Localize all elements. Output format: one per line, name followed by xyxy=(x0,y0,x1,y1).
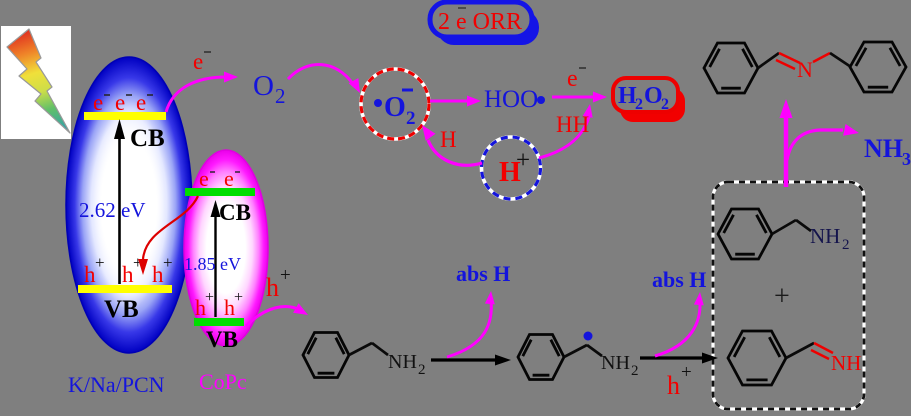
label h+ (oxidation) xyxy=(667,362,692,400)
svg-text:HH: HH xyxy=(556,112,589,137)
svg-text:1.85 eV: 1.85 eV xyxy=(184,254,241,274)
arrow O2 to superoxide xyxy=(288,65,360,93)
bond ring-CH (imine) xyxy=(786,343,814,358)
electrons on PCN CB xyxy=(93,90,153,115)
2e ORR box xyxy=(430,2,532,37)
svg-text:abs H: abs H xyxy=(652,267,706,292)
dashed intermediates box xyxy=(713,182,864,409)
K/Na/PCN photocatalyst ellipse xyxy=(66,57,192,353)
svg-text:3: 3 xyxy=(902,149,911,169)
arrow H+ to H2O2 path xyxy=(539,104,593,158)
svg-text:e: e xyxy=(93,90,103,115)
proton dashed circle xyxy=(482,137,541,199)
benzylamine ring (reactant) xyxy=(303,333,349,378)
svg-text:+: + xyxy=(774,281,790,312)
svg-text:NH: NH xyxy=(864,134,903,163)
svg-text:VB: VB xyxy=(104,296,139,323)
svg-text:2: 2 xyxy=(661,96,669,113)
svg-text:NH: NH xyxy=(831,351,861,375)
svg-text:+: + xyxy=(205,289,214,306)
boxed benzylamine CH2 bonds xyxy=(772,220,811,234)
label NH3 xyxy=(864,134,911,169)
svg-text:O: O xyxy=(644,83,663,109)
h+ transfer from CoPc VB xyxy=(246,303,308,326)
boxed imine ring xyxy=(728,331,786,385)
bond ring-CH xyxy=(758,53,779,68)
CoPc VB band (green) xyxy=(194,318,244,326)
arrow intermediates to product xyxy=(780,99,793,187)
svg-text:CB: CB xyxy=(219,200,251,225)
electron transfer arrow PCN CB to O2 xyxy=(166,72,238,113)
svg-text:NH: NH xyxy=(388,351,417,373)
svg-text:2: 2 xyxy=(275,84,286,108)
benzylamine CH2 bonds xyxy=(349,343,388,355)
arrow NH3 release xyxy=(787,124,859,160)
arrow superoxide to HOO xyxy=(430,96,481,107)
C=N double bond to NH (red) xyxy=(811,343,833,359)
holes on PCN VB xyxy=(84,253,173,287)
label NH2 (radical) xyxy=(601,352,639,379)
2e ORR box shadow xyxy=(437,10,539,45)
CoPc CB band (green) xyxy=(185,188,255,196)
svg-text:K/Na/PCN: K/Na/PCN xyxy=(68,372,165,397)
svg-text:e: e xyxy=(199,166,209,191)
svg-text:+: + xyxy=(163,253,173,272)
svg-text:+: + xyxy=(95,253,105,272)
svg-text:NH: NH xyxy=(601,352,630,374)
svg-text:2: 2 xyxy=(418,362,426,378)
svg-text:+: + xyxy=(234,289,243,306)
svg-text:CB: CB xyxy=(130,125,165,152)
reaction arrow 2 xyxy=(640,353,718,364)
electrons on CoPc CB xyxy=(199,166,240,191)
svg-text:e: e xyxy=(567,66,578,92)
H2O2 product box shadow xyxy=(620,88,685,122)
label NH2 (reactant) xyxy=(388,351,426,378)
arrow HOO to H2O2 xyxy=(552,92,607,103)
svg-text:2: 2 xyxy=(635,96,643,113)
svg-text:O: O xyxy=(384,92,406,123)
H2O2 product box xyxy=(613,78,678,112)
label •O2- xyxy=(374,90,416,129)
svg-text:O: O xyxy=(253,70,274,102)
svg-text:2: 2 xyxy=(406,108,416,129)
svg-text:e: e xyxy=(115,90,125,115)
abs H arrow 2 xyxy=(655,292,704,356)
arrow H+ to superoxide xyxy=(422,125,482,165)
PCN band-gap arrow xyxy=(114,119,125,284)
svg-text:e: e xyxy=(224,166,234,191)
svg-text:+: + xyxy=(280,265,291,286)
label O2 xyxy=(253,70,286,108)
svg-text:2 e ORR: 2 e ORR xyxy=(438,9,522,35)
svg-text:abs H: abs H xyxy=(456,261,510,286)
svg-text:H: H xyxy=(440,127,457,152)
bond N-CH2 (red) xyxy=(813,53,830,62)
svg-text:+: + xyxy=(516,147,530,174)
svg-text:CoPc: CoPc xyxy=(199,369,247,394)
radical dot xyxy=(584,332,593,341)
PCN ellipse white core highlight xyxy=(93,100,165,310)
light source white panel xyxy=(1,26,71,139)
svg-text:h: h xyxy=(266,273,279,302)
radical intermediate ring xyxy=(518,335,564,380)
svg-text:2: 2 xyxy=(631,363,639,379)
lightning bolt xyxy=(7,29,70,133)
Z-scheme recombination arrow (CoPc CB to PCN VB) xyxy=(138,196,198,275)
svg-text:N: N xyxy=(797,57,813,82)
label NH2 (boxed amine) xyxy=(810,224,850,253)
label e- (to H2O2) xyxy=(567,66,586,92)
label H2O2 xyxy=(618,83,669,113)
reaction arrow 1 xyxy=(431,355,511,366)
label HOO• xyxy=(484,86,545,113)
product right benzene ring xyxy=(850,42,906,92)
svg-text:h: h xyxy=(667,371,680,400)
label h+ (CoPc) xyxy=(266,265,291,302)
svg-text:e: e xyxy=(193,49,203,74)
PCN VB band (yellow) xyxy=(78,285,172,293)
abs H arrow 1 xyxy=(447,291,495,357)
radical CH bonds xyxy=(564,345,602,357)
holes on CoPc VB xyxy=(195,289,243,320)
C=N double bond (red) xyxy=(776,53,800,69)
CoPc band-gap arrow xyxy=(211,200,221,317)
svg-text:2: 2 xyxy=(842,237,850,253)
bond CH2-ring xyxy=(830,53,851,67)
boxed benzylamine ring xyxy=(718,209,772,259)
svg-text:NH: NH xyxy=(810,224,840,248)
PCN CB band (yellow) xyxy=(84,112,166,120)
superoxide radical dashed circle xyxy=(361,69,429,139)
label e- (transfer) xyxy=(193,49,211,74)
svg-text:HOO: HOO xyxy=(484,86,538,113)
svg-text:e: e xyxy=(136,90,146,115)
label H+ xyxy=(499,147,530,188)
label 2 e- ORR xyxy=(438,8,522,35)
svg-text:+: + xyxy=(681,362,692,383)
svg-text:2.62 eV: 2.62 eV xyxy=(79,198,146,222)
product left benzene ring xyxy=(704,43,758,93)
svg-text:VB: VB xyxy=(206,327,238,352)
CoPc cocatalyst ellipse xyxy=(184,150,268,346)
